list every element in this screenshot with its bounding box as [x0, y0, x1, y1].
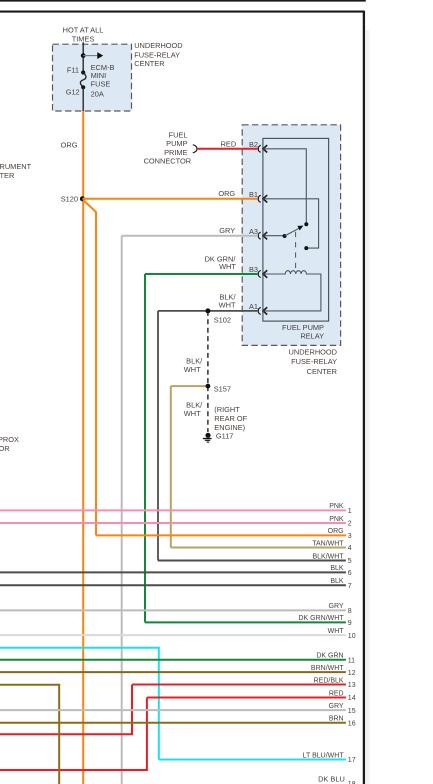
- svg-text:WHT: WHT: [219, 300, 236, 309]
- svg-text:RELAY: RELAY: [300, 332, 324, 341]
- svg-text:BLK: BLK: [330, 578, 344, 585]
- relay internal contact from B1: [263, 199, 318, 248]
- svg-text:FUSE: FUSE: [91, 80, 111, 89]
- wire 16 BRN: [0, 722, 346, 724]
- wire 2 PNK: [0, 522, 346, 524]
- fuel pump relay inner box: [263, 138, 329, 321]
- BLK/WHT dashed wire S157 to G117: [207, 386, 209, 432]
- svg-text:11: 11: [348, 658, 355, 665]
- svg-text:UNDERHOOD: UNDERHOOD: [289, 347, 337, 356]
- svg-text:G12: G12: [66, 87, 80, 96]
- svg-text:CENTER: CENTER: [307, 367, 337, 376]
- wire 1 PNK: [0, 509, 346, 511]
- svg-text:FUSE-RELAY: FUSE-RELAY: [291, 357, 337, 366]
- svg-text:5: 5: [348, 558, 352, 565]
- svg-text:4: 4: [348, 545, 352, 552]
- underhood fuse-relay center box (relay): [242, 125, 340, 346]
- svg-text:RED: RED: [329, 690, 344, 697]
- wire 13 RED/BLK: [132, 684, 346, 686]
- svg-text:TER: TER: [0, 171, 14, 180]
- svg-text:20A: 20A: [91, 89, 104, 98]
- relay pin A3: [249, 227, 267, 240]
- svg-text:ORG: ORG: [328, 528, 344, 535]
- wire 5 BLK/WHT: [158, 560, 346, 562]
- svg-text:F11: F11: [67, 66, 79, 75]
- wire 15 GRY: [0, 709, 346, 711]
- svg-text:A3: A3: [249, 227, 258, 236]
- svg-text:DK BLU: DK BLU: [318, 774, 345, 783]
- svg-text:B2: B2: [249, 140, 258, 149]
- wire 9 DK GRN/WHT: [145, 621, 346, 623]
- svg-text:B3: B3: [249, 265, 258, 274]
- splice S157: [206, 384, 211, 389]
- splice S120: [80, 196, 85, 201]
- svg-text:7: 7: [348, 583, 352, 590]
- wire 3 ORG: [96, 534, 346, 536]
- wire 17 LT BLU/WHT: [159, 759, 346, 761]
- wire 8 GRY: [0, 609, 346, 611]
- page border right: [363, 11, 365, 784]
- wire 4 TAN/WHT: [171, 547, 346, 549]
- TAN/WHT wire from S157 down-left: [171, 385, 206, 387]
- svg-text:2: 2: [348, 521, 352, 528]
- svg-text:TAN/WHT: TAN/WHT: [312, 540, 344, 547]
- wire 6 BLK: [0, 571, 346, 573]
- svg-text:1: 1: [348, 508, 352, 515]
- wire from HOT AT ALL TIMES into fuse box: [82, 42, 84, 72]
- wire 10 WHT: [0, 634, 346, 636]
- svg-text:RED/BLK: RED/BLK: [314, 677, 344, 684]
- RED wire prime connector to relay pin B2: [197, 148, 258, 150]
- BLK/WHT dashed wire S102 to S157: [207, 311, 209, 386]
- svg-text:UNDERHOOD: UNDERHOOD: [134, 41, 182, 50]
- svg-text:GRY: GRY: [219, 226, 235, 235]
- svg-text:WHT: WHT: [184, 409, 201, 418]
- branch junction + arrow inside fuse box: [81, 53, 86, 58]
- fuse F11/G12 ECM-B MINI FUSE 20A: [81, 70, 85, 74]
- svg-text:MINI: MINI: [91, 71, 107, 80]
- splice S102: [205, 308, 210, 313]
- svg-text:S157: S157: [214, 385, 231, 394]
- svg-text:8: 8: [348, 608, 352, 615]
- svg-text:14: 14: [348, 695, 356, 702]
- svg-text:LT BLU/WHT: LT BLU/WHT: [303, 752, 345, 759]
- underhood fuse-relay center box (fuse): [53, 44, 132, 111]
- svg-text:BRN: BRN: [329, 716, 344, 723]
- ground G117: [205, 433, 210, 438]
- top page-crop edge line: [0, 0, 366, 2]
- wire fuse to box bottom: [82, 87, 84, 111]
- svg-text:BRN/WHT: BRN/WHT: [311, 665, 344, 672]
- svg-text:DK GRN/WHT: DK GRN/WHT: [298, 615, 344, 622]
- svg-text:12: 12: [348, 670, 356, 677]
- relay pin A1: [249, 302, 267, 315]
- wire 12 BRN/WHT: [0, 671, 346, 673]
- svg-text:DK GRN: DK GRN: [316, 653, 343, 660]
- svg-text:RED: RED: [221, 139, 237, 148]
- svg-text:CONNECTOR: CONNECTOR: [144, 157, 192, 166]
- svg-text:GRY: GRY: [329, 603, 344, 610]
- svg-text:ORG: ORG: [61, 141, 78, 150]
- svg-text:PROX: PROX: [0, 435, 19, 444]
- svg-text:PUMP: PUMP: [166, 139, 187, 148]
- svg-text:BLK: BLK: [330, 565, 344, 572]
- svg-text:WHT: WHT: [328, 628, 345, 635]
- relay pin B1: [249, 190, 267, 203]
- prime connector terminal arc: [193, 145, 197, 153]
- svg-text:3: 3: [348, 533, 352, 540]
- svg-text:16: 16: [348, 721, 356, 728]
- relay coil between B3 and A1: [263, 271, 321, 311]
- ORG wire S120 to relay pin B1: [82, 198, 257, 200]
- svg-text:9: 9: [348, 620, 352, 627]
- svg-text:CENTER: CENTER: [134, 59, 164, 68]
- svg-text:TIMES: TIMES: [72, 35, 95, 44]
- relay switch-coil mechanical link (dashed): [295, 232, 297, 270]
- svg-text:B1: B1: [249, 190, 258, 199]
- wire 14 RED: [147, 697, 346, 699]
- svg-text:OR: OR: [0, 444, 10, 453]
- svg-text:15: 15: [348, 708, 356, 715]
- svg-text:A1: A1: [249, 302, 258, 311]
- svg-text:(RIGHT: (RIGHT: [214, 405, 240, 414]
- wire 11 DK GRN: [0, 659, 346, 661]
- svg-text:ORG: ORG: [218, 189, 235, 198]
- wire 14 RED left leg: [0, 698, 147, 771]
- svg-text:WHT: WHT: [219, 262, 236, 271]
- svg-text:S120: S120: [61, 195, 78, 204]
- svg-text:6: 6: [348, 570, 352, 577]
- svg-text:BLK/WHT: BLK/WHT: [312, 553, 344, 560]
- svg-text:17: 17: [348, 757, 356, 764]
- svg-text:S102: S102: [214, 315, 231, 324]
- wire 7 BLK: [0, 584, 346, 586]
- ORG vertical wire from fuse box to bottom of page: [82, 111, 84, 784]
- svg-text:WHT: WHT: [184, 365, 201, 374]
- ORG branch S120 diagonal down to second vertical: [83, 200, 96, 535]
- BRN stub wire left bottom: [0, 685, 59, 784]
- svg-text:HOT AT ALL: HOT AT ALL: [63, 26, 104, 35]
- svg-text:GRY: GRY: [329, 703, 344, 710]
- svg-text:PNK: PNK: [329, 516, 344, 523]
- svg-text:RUMENT: RUMENT: [0, 162, 32, 171]
- svg-text:10: 10: [348, 633, 356, 640]
- svg-text:PNK: PNK: [329, 503, 344, 510]
- relay internal contact from B2: [263, 149, 306, 223]
- relay switch arm from A3: [263, 235, 284, 237]
- page border top: [0, 11, 364, 13]
- svg-text:13: 13: [348, 682, 356, 689]
- wire 13 RED/BLK left leg: [0, 685, 132, 735]
- svg-text:REAR OF: REAR OF: [214, 414, 247, 423]
- wire 17 LT BLU/WHT left leg: [0, 648, 159, 760]
- relay pin B2: [249, 140, 267, 153]
- relay pin B3: [249, 265, 267, 278]
- svg-text:G117: G117: [216, 431, 234, 440]
